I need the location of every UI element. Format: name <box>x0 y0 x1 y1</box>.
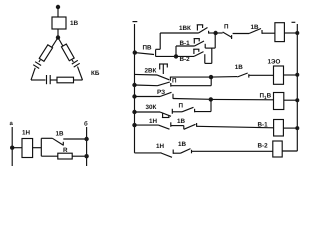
svg-text:б: б <box>84 121 88 128</box>
svg-text:1Н: 1Н <box>149 118 158 125</box>
svg-text:В-1: В-1 <box>180 40 191 47</box>
svg-text:30К: 30К <box>146 104 157 111</box>
svg-text:ПВ: ПВ <box>143 45 153 52</box>
svg-text:R: R <box>63 147 68 154</box>
svg-text:1В: 1В <box>235 64 244 71</box>
svg-text:1В: 1В <box>177 118 186 125</box>
svg-text:В-2: В-2 <box>258 143 269 150</box>
svg-text:1В: 1В <box>178 141 187 148</box>
svg-text:КБ: КБ <box>91 70 100 77</box>
svg-text:а: а <box>10 121 14 127</box>
svg-text:П: П <box>224 24 229 31</box>
svg-text:1ЭО: 1ЭО <box>268 58 281 65</box>
svg-text:1В: 1В <box>56 131 65 138</box>
svg-text:В-2: В-2 <box>180 56 191 63</box>
svg-text:П: П <box>179 103 184 110</box>
svg-text:В-1: В-1 <box>258 122 269 129</box>
svg-text:П1В: П1В <box>260 93 272 100</box>
svg-text:1ВК: 1ВК <box>179 25 191 32</box>
svg-text:1В: 1В <box>70 20 79 27</box>
svg-text:1Н: 1Н <box>22 130 31 137</box>
svg-text:2ВК: 2ВК <box>145 68 157 75</box>
svg-text:П: П <box>172 77 177 84</box>
svg-text:1Н: 1Н <box>156 143 165 150</box>
